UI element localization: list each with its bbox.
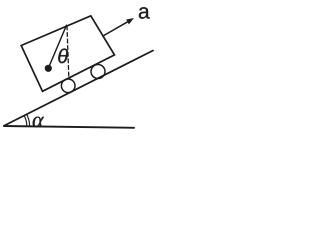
pendulum string — [48, 25, 66, 68]
label a — [139, 7, 150, 19]
label alpha — [33, 117, 44, 128]
acceleration arrowhead — [126, 18, 134, 24]
wheel right — [91, 65, 105, 79]
incline hypotenuse — [4, 51, 153, 126]
acceleration arrow shaft — [103, 22, 128, 36]
label theta — [58, 49, 68, 64]
pendulum bob — [45, 65, 52, 72]
angle alpha arc — [24, 116, 27, 127]
dashed vertical reference line — [67, 26, 69, 78]
wheel left — [61, 79, 75, 93]
incline base — [4, 126, 134, 128]
cart body — [21, 16, 114, 92]
